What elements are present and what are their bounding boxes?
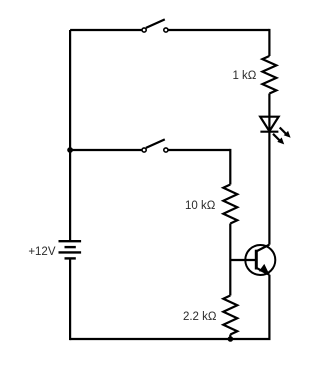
svg-text:10 kΩ: 10 kΩ [185,200,216,212]
svg-text:1 kΩ: 1 kΩ [232,70,256,82]
svg-text:2.2 kΩ: 2.2 kΩ [183,311,217,323]
svg-text:+12V: +12V [28,246,56,258]
